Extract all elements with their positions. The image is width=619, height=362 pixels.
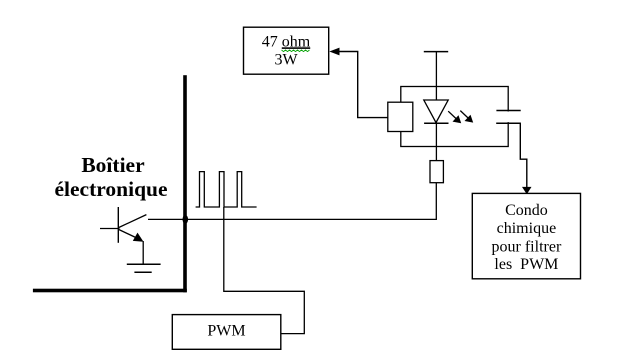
svg-text:Boîtier: Boîtier (81, 153, 145, 177)
resistor box "47 ohm 3W" (244, 27, 329, 74)
svg-text:47 ohm: 47 ohm (262, 33, 311, 50)
label Boîtier électronique (54, 153, 167, 201)
optocoupler box U1 (401, 87, 508, 147)
green squiggle under ohm (282, 50, 310, 52)
ground (127, 264, 161, 272)
svg-text:électronique: électronique (54, 177, 167, 201)
node junction dot (183, 215, 189, 224)
emitter wire to ground (142, 241, 144, 264)
capacitor C1 (496, 111, 521, 124)
svg-text:pour filtrer: pour filtrer (492, 238, 562, 255)
vertical supply wire through LED (435, 52, 437, 161)
PWM pulse waveform (196, 172, 257, 207)
wire from resistor box to opto resistor (with left arrowhead) (329, 48, 388, 118)
wire capacitor to condo box with arrowhead (520, 123, 531, 194)
thick wall vertical (183, 75, 187, 292)
wire from bus down to PWM box (224, 207, 304, 334)
svg-text:PWM: PWM (207, 323, 245, 340)
transistor Q1 (100, 207, 146, 243)
LED D1 (424, 100, 449, 123)
power rail T symbol (424, 51, 448, 53)
PWM box (172, 315, 280, 350)
LED light arrows (448, 111, 473, 124)
condo box "Condo chimique pour filtrer les PWM" (472, 193, 580, 278)
resistor under LED (430, 161, 443, 183)
svg-text:Condo: Condo (505, 202, 548, 219)
thick wall horizontal (33, 289, 187, 293)
collector bus wire to LED resistor (148, 183, 436, 220)
resistor (inside opto, left) (388, 102, 413, 131)
svg-text:chimique: chimique (497, 220, 557, 237)
svg-text:les PWM: les PWM (494, 256, 558, 273)
svg-text:3W: 3W (274, 52, 298, 69)
